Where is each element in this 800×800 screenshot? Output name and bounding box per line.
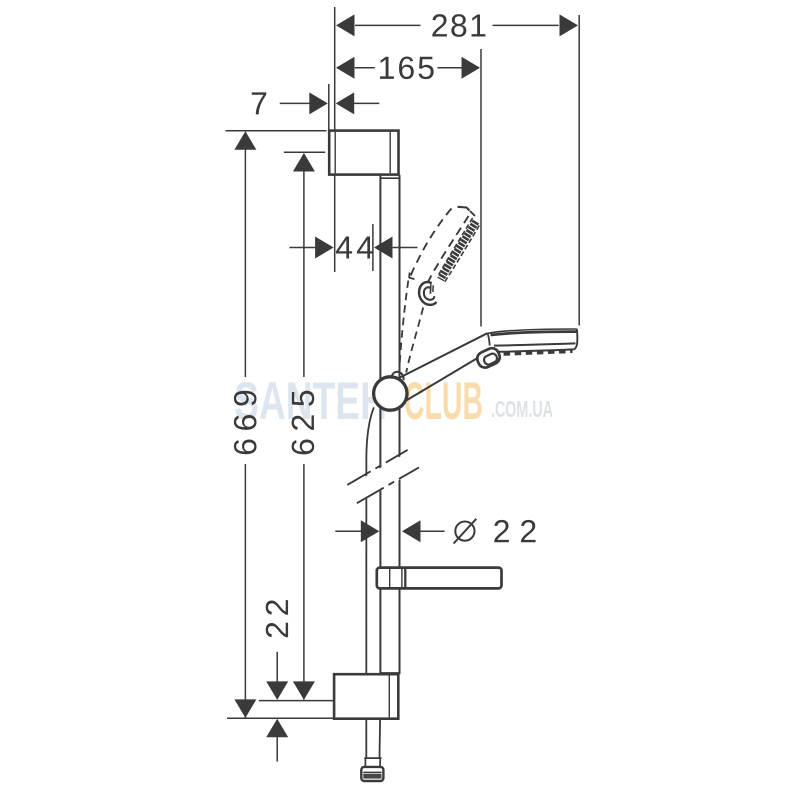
hand shower head top edge thick	[491, 332, 577, 335]
extension line 625 top	[284, 151, 325, 153]
hose fitting cap	[361, 767, 383, 781]
hose fitting step	[364, 757, 381, 759]
svg-text:CLUB: CLUB	[404, 372, 483, 431]
extension line 44 right reference	[372, 224, 374, 271]
hook inner curl	[424, 287, 434, 299]
soap dish	[377, 568, 502, 589]
svg-text:SANTEH: SANTEH	[234, 372, 387, 431]
dimension 44 line	[289, 247, 315, 249]
dimension text 44	[336, 236, 373, 258]
dimension 281 left arrow	[336, 14, 355, 36]
solid handle lower line	[400, 357, 479, 404]
wall bracket bottom inner line	[388, 676, 390, 718]
hose fitting nut sides	[364, 758, 366, 767]
dimension 669 line	[244, 133, 246, 377]
hose fitting knurl band	[363, 774, 381, 779]
hand shower head body bottom line	[494, 343, 576, 345]
dimension text 625	[292, 391, 315, 455]
hose left edge	[366, 407, 374, 758]
dimension 165 right arrow	[462, 57, 481, 79]
dimension 7 right arrow (points left)	[336, 92, 355, 114]
dimension 7 line	[280, 102, 311, 104]
soap dish inner line 3	[404, 569, 406, 587]
wall bracket top inner line right	[389, 132, 391, 173]
hose right edge below bracket	[379, 719, 382, 758]
extension line wall-left for dim 7	[328, 84, 330, 131]
dimension 281 right arrow	[560, 14, 579, 36]
hand shower spray plate bottom edge	[497, 349, 573, 351]
dimension 625 top arrow	[293, 153, 315, 172]
dimension text 22	[266, 600, 288, 637]
dashed position: nozzle band	[441, 222, 477, 280]
wall bracket bottom	[334, 674, 398, 719]
dimension 625 line	[303, 154, 305, 377]
hand shower handle cap outer	[475, 346, 502, 370]
dashed handle right line	[406, 308, 423, 373]
hand shower head left joint edge	[488, 333, 490, 345]
hand shower head right edge	[574, 329, 578, 350]
dimension text 669	[234, 391, 257, 454]
shower bar right edge	[399, 175, 401, 675]
hand shower head top edge thin	[487, 329, 576, 333]
bar bottom end line	[380, 672, 399, 674]
extension line 281 right (head end)	[578, 15, 580, 326]
hand shower nozzle dashes	[493, 351, 573, 354]
solid handle upper line	[392, 333, 487, 381]
extension line 669 top	[226, 130, 327, 132]
extension line 669/22 bottom	[227, 717, 333, 719]
dashed position: head top cap	[458, 207, 470, 211]
dimension text 7	[252, 92, 267, 114]
bar top end line	[380, 177, 399, 179]
dimension 44 right arrow (points left)	[374, 237, 393, 259]
dashed position: head left edge	[411, 209, 452, 277]
dimension 22 down arrow	[266, 681, 288, 700]
pivot slider circle	[374, 377, 407, 410]
soap dish inner line 2	[401, 569, 403, 587]
dimension text dia 22	[454, 519, 477, 544]
dashed position: head corner	[409, 273, 414, 280]
dimension 165 left arrow	[336, 57, 355, 79]
dashed position: head right short edge	[470, 211, 478, 219]
dimension 22 line lower	[276, 736, 278, 762]
dimension text 281	[432, 14, 485, 37]
dimension 44 left arrow (points right)	[315, 237, 334, 259]
extension line 625/22 bottom	[259, 700, 334, 702]
dimension text 165	[380, 56, 434, 79]
hand shower handle cap inner	[483, 352, 499, 366]
extension line 165 right (head pivot)	[480, 49, 482, 327]
shower bar left edge	[379, 175, 381, 675]
dimension 22 up arrow	[266, 719, 288, 738]
pivot slider tab	[391, 372, 403, 380]
soap dish inner line 1	[389, 569, 391, 587]
dimension dia22 left arrow (points right)	[361, 520, 380, 542]
dimension dia22 right arrow (points left)	[402, 520, 421, 542]
hose fitting cap inner line	[363, 771, 381, 773]
dimension 281 line	[355, 24, 421, 26]
dimension 22 line upper	[276, 652, 278, 684]
svg-text:.COM.UA: .COM.UA	[491, 396, 553, 422]
bar break white gap	[348, 452, 419, 504]
dimension dia22 line	[335, 530, 361, 532]
dimension 669 bottom arrow	[234, 699, 256, 718]
hook outer curl	[419, 282, 436, 305]
bar break line 2	[357, 467, 419, 503]
hook clasp lines	[429, 284, 431, 294]
dimension 625 bottom arrow	[293, 681, 315, 700]
wall bracket top inner line left	[334, 132, 336, 173]
bar break line 1	[347, 450, 407, 485]
dashed position: spray plate edge	[428, 216, 469, 282]
wall bracket top	[329, 131, 398, 175]
dimension 7 left arrow (points right)	[309, 92, 328, 114]
dimension 669 top arrow	[234, 131, 256, 150]
extension line bar-left reference (281/165/7/44)	[334, 7, 336, 272]
dashed handle left line	[399, 281, 408, 372]
dimension 165 line	[355, 67, 375, 69]
